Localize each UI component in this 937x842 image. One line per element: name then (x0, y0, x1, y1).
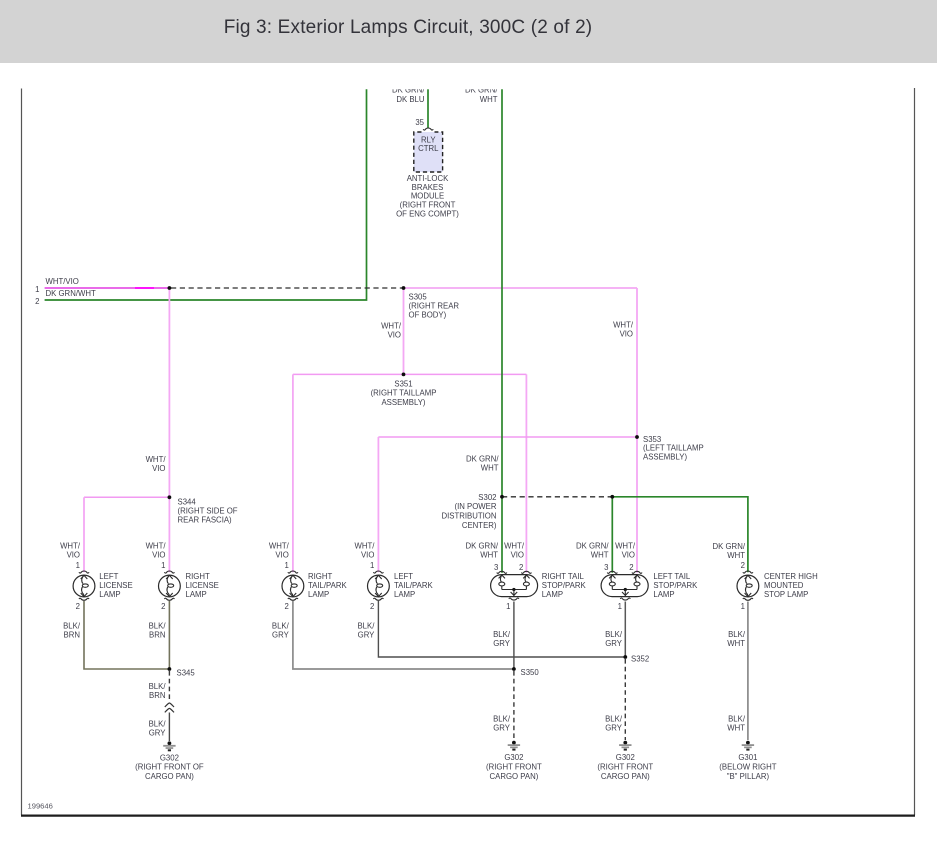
svg-text:WHT/: WHT/ (269, 542, 290, 551)
svg-text:(LEFT TAILLAMP: (LEFT TAILLAMP (643, 444, 704, 453)
svg-text:(RIGHT SIDE OF: (RIGHT SIDE OF (178, 507, 238, 516)
svg-text:3: 3 (604, 563, 608, 572)
svg-text:G302: G302 (616, 753, 635, 762)
svg-text:WHT/: WHT/ (146, 542, 167, 551)
wire DK GRN/WHT from top down to S302 (501, 89, 503, 497)
svg-text:199646: 199646 (28, 802, 53, 811)
frame left border (21, 89, 23, 816)
svg-text:ASSEMBLY): ASSEMBLY) (643, 452, 687, 461)
wire WHT/VIO S351 to right tail/park lamp pin 1 (292, 374, 294, 572)
svg-text:1: 1 (370, 561, 374, 570)
svg-text:1: 1 (76, 561, 80, 570)
wire dashed BLK/BRN S345 down (168, 671, 170, 702)
svg-text:BLK/: BLK/ (493, 714, 511, 723)
wire WHT/VIO junction down to S344 (168, 288, 170, 497)
node junction DK GRN/WHT (610, 495, 614, 499)
svg-text:GRY: GRY (272, 631, 290, 640)
ground G302 right front of cargo pan (163, 741, 175, 751)
svg-text:G302: G302 (504, 753, 523, 762)
svg-text:WHT/VIO: WHT/VIO (46, 277, 79, 286)
wire WHT/VIO S344 to left license lamp pin 1 (83, 497, 85, 572)
ground G302 below S352 (619, 741, 631, 751)
svg-text:BRN: BRN (149, 691, 165, 700)
svg-text:REAR FASCIA): REAR FASCIA) (178, 516, 233, 525)
svg-text:LAMP: LAMP (394, 590, 415, 599)
title bar (0, 17, 816, 39)
svg-text:TAIL/PARK: TAIL/PARK (394, 581, 434, 590)
svg-text:CTRL: CTRL (418, 144, 439, 153)
svg-text:GRY: GRY (605, 639, 623, 648)
wire dashed DK GRN/WHT from S302 (502, 496, 612, 498)
wire DK GRN/WHT junction to left tail stop/park lamp pin 3 (611, 497, 613, 573)
svg-text:BRAKES: BRAKES (412, 183, 444, 192)
svg-text:LEFT TAIL: LEFT TAIL (653, 572, 690, 581)
wire DK GRN/DK BLU from top to ABS module pin 35 (427, 89, 429, 128)
svg-text:VIO: VIO (388, 331, 401, 340)
svg-text:WHT/: WHT/ (504, 542, 525, 551)
svg-text:GRY: GRY (149, 728, 167, 737)
svg-text:GRY: GRY (493, 723, 511, 732)
pin 35 connector arc (423, 128, 433, 130)
svg-text:RIGHT: RIGHT (186, 572, 210, 581)
svg-text:VIO: VIO (275, 550, 288, 559)
svg-text:WHT: WHT (727, 723, 745, 732)
svg-text:BLK/: BLK/ (605, 714, 623, 723)
wire BLK/WHT center high mounted stop lamp pin 1 to ground G301 (747, 602, 749, 741)
svg-text:DK GRN/: DK GRN/ (466, 454, 499, 463)
svg-text:WHT: WHT (591, 550, 609, 559)
svg-text:BLK/: BLK/ (728, 630, 746, 639)
svg-text:(RIGHT FRONT OF: (RIGHT FRONT OF (135, 763, 204, 772)
svg-text:MOUNTED: MOUNTED (764, 581, 804, 590)
svg-text:WHT: WHT (727, 639, 745, 648)
svg-text:DK GRN/WHT: DK GRN/WHT (46, 289, 96, 298)
svg-text:(RIGHT FRONT: (RIGHT FRONT (486, 762, 542, 771)
svg-text:TAIL/PARK: TAIL/PARK (308, 581, 348, 590)
svg-text:DK BLU: DK BLU (396, 95, 425, 104)
node S305 (402, 286, 406, 290)
svg-text:MODULE: MODULE (411, 192, 444, 201)
wire DK GRN/WHT S302 to right tail stop/park lamp pin 3 (501, 497, 503, 573)
svg-text:OF ENG COMPT): OF ENG COMPT) (396, 209, 459, 218)
wire WHT/VIO down to S353 (636, 288, 638, 437)
wire WHT/VIO S344 branch bar (84, 496, 169, 498)
wire WHT/VIO S353 to left tail/park lamp pin 1 (377, 437, 379, 572)
panel top mask (23, 76, 913, 89)
wire BLK/GRY to ground G302 (168, 713, 170, 742)
svg-text:BLK/: BLK/ (63, 622, 81, 631)
svg-text:3: 3 (494, 563, 498, 572)
svg-text:S353: S353 (643, 435, 661, 444)
svg-text:ASSEMBLY): ASSEMBLY) (381, 398, 425, 407)
svg-text:S350: S350 (521, 668, 540, 677)
svg-text:S351: S351 (394, 379, 412, 388)
svg-text:WHT/: WHT/ (146, 455, 167, 464)
svg-text:WHT/: WHT/ (615, 542, 636, 551)
svg-text:G302: G302 (160, 753, 179, 762)
svg-text:VIO: VIO (620, 330, 633, 339)
svg-text:WHT: WHT (480, 550, 498, 559)
svg-text:"B" PILLAR): "B" PILLAR) (727, 772, 770, 781)
svg-text:LAMP: LAMP (653, 590, 674, 599)
svg-text:BLK/: BLK/ (728, 714, 746, 723)
svg-text:BRN: BRN (64, 631, 80, 640)
svg-text:2: 2 (284, 602, 288, 611)
svg-text:STOP/PARK: STOP/PARK (542, 581, 587, 590)
svg-text:BLK/: BLK/ (149, 719, 167, 728)
svg-text:S305: S305 (409, 292, 428, 301)
node S344 (168, 495, 172, 499)
wire DK GRN/WHT junction to center high mounted stop lamp pin 2 (612, 497, 748, 572)
svg-text:LICENSE: LICENSE (186, 581, 219, 590)
svg-text:DISTRIBUTION: DISTRIBUTION (441, 512, 496, 521)
svg-text:WHT: WHT (481, 464, 499, 473)
lamp LEFT LICENSE LAMP (73, 575, 95, 597)
wire BLK/GRY right tail stop/park lamp pin 1 to S350 (513, 602, 515, 670)
svg-text:(RIGHT TAILLAMP: (RIGHT TAILLAMP (371, 389, 437, 398)
wire BLK/GRY right tail/park lamp pin 2 to S350 (293, 601, 514, 669)
ground G301 below right B pillar (742, 741, 754, 751)
svg-text:1: 1 (506, 602, 510, 611)
svg-text:BLK/: BLK/ (149, 682, 167, 691)
node S351 (402, 373, 406, 377)
svg-text:CARGO PAN): CARGO PAN) (489, 772, 538, 781)
svg-text:LEFT: LEFT (394, 572, 413, 581)
svg-text:S352: S352 (631, 654, 649, 663)
svg-text:(RIGHT FRONT: (RIGHT FRONT (400, 201, 456, 210)
svg-text:BRN: BRN (149, 631, 165, 640)
wire WHT/VIO S351 branch bar (293, 373, 527, 375)
svg-text:WHT/: WHT/ (60, 542, 81, 551)
svg-text:VIO: VIO (511, 550, 524, 559)
svg-text:LAMP: LAMP (99, 590, 120, 599)
wire dashed WHT/VIO to S305 (171, 287, 404, 289)
lamp RIGHT TAIL/PARK LAMP (282, 575, 304, 597)
svg-text:WHT/: WHT/ (354, 542, 375, 551)
svg-text:LAMP: LAMP (186, 590, 207, 599)
wire WHT/VIO S351 to right tail stop/park lamp pin 2 (525, 374, 527, 572)
svg-text:G301: G301 (738, 753, 757, 762)
svg-text:GRY: GRY (358, 631, 376, 640)
svg-text:OF BODY): OF BODY) (409, 311, 447, 320)
svg-text:CENTER HIGH: CENTER HIGH (764, 572, 818, 581)
wire BLK/GRY left tail/park lamp pin 2 to S352 (378, 601, 625, 657)
svg-text:BLK/: BLK/ (149, 622, 167, 631)
svg-text:VIO: VIO (152, 550, 165, 559)
svg-text:DK GRN/: DK GRN/ (576, 542, 609, 551)
svg-text:2: 2 (741, 561, 745, 570)
svg-text:S345: S345 (177, 668, 196, 677)
lamp LEFT TAIL/PARK LAMP (368, 575, 390, 597)
svg-text:1: 1 (741, 602, 745, 611)
wire WHT/VIO bright segment (135, 287, 154, 289)
svg-text:2: 2 (76, 602, 80, 611)
node S353 (635, 435, 639, 439)
svg-text:LEFT: LEFT (99, 572, 118, 581)
lamp LEFT TAIL STOP/PARK LAMP (601, 575, 648, 597)
svg-text:(RIGHT FRONT: (RIGHT FRONT (597, 762, 653, 771)
svg-text:VIO: VIO (67, 550, 80, 559)
node S302 (500, 495, 504, 499)
svg-text:RIGHT: RIGHT (308, 572, 332, 581)
wire BLK/BRN right license lamp pin 2 to S345 (168, 601, 170, 669)
svg-text:2: 2 (161, 602, 165, 611)
svg-text:S344: S344 (178, 497, 197, 506)
svg-text:WHT/: WHT/ (381, 321, 402, 330)
svg-text:2: 2 (519, 563, 523, 572)
node S352 (623, 655, 627, 659)
svg-text:BLK/: BLK/ (605, 630, 623, 639)
node S345 (168, 667, 172, 671)
wire DK GRN/WHT from connector pin 2 to top of page (45, 89, 367, 300)
wire dashed BLK/GRY S352 to ground (624, 659, 626, 740)
wire dashed BLK/GRY S350 to ground (513, 671, 515, 740)
lamp CENTER HIGH MOUNTED STOP LAMP (737, 575, 759, 597)
svg-text:RIGHT TAIL: RIGHT TAIL (542, 572, 585, 581)
svg-text:BLK/: BLK/ (357, 622, 375, 631)
svg-text:1: 1 (618, 602, 622, 611)
svg-text:(RIGHT REAR: (RIGHT REAR (409, 302, 460, 311)
svg-text:WHT: WHT (727, 551, 745, 560)
svg-text:DK GRN/: DK GRN/ (713, 542, 746, 551)
svg-text:CENTER): CENTER) (462, 521, 497, 530)
node junction WHT/VIO (168, 286, 172, 290)
frame right border (914, 88, 916, 815)
ground G302 below S350 (508, 741, 520, 751)
lamp RIGHT TAIL STOP/PARK LAMP (491, 575, 538, 597)
svg-text:2: 2 (35, 297, 39, 306)
svg-text:STOP/PARK: STOP/PARK (653, 581, 698, 590)
svg-text:VIO: VIO (361, 550, 374, 559)
wire BLK/BRN left license lamp pin 2 to S345 (84, 601, 169, 669)
wire WHT/VIO S353 branch bar (378, 436, 637, 438)
svg-text:CARGO PAN): CARGO PAN) (145, 772, 194, 781)
svg-text:BLK/: BLK/ (493, 630, 511, 639)
svg-text:(IN POWER: (IN POWER (454, 502, 496, 511)
wire WHT/VIO from connector pin 1 (45, 287, 170, 289)
svg-text:DK GRN/: DK GRN/ (466, 542, 499, 551)
wire WHT/VIO S305 to S353 corner (404, 287, 638, 289)
svg-text:CARGO PAN): CARGO PAN) (601, 772, 650, 781)
frame bottom border (21, 814, 915, 816)
svg-text:BLK/: BLK/ (272, 622, 290, 631)
op-amp U1 anti-lock brakes module RLY CTRL box (414, 132, 443, 172)
wire BLK/GRY left tail stop/park lamp pin 1 to S352 (624, 602, 626, 658)
svg-text:LICENSE: LICENSE (99, 581, 132, 590)
lamp RIGHT LICENSE LAMP (159, 575, 181, 597)
wire WHT/VIO S344 to right license lamp pin 1 (168, 497, 170, 572)
svg-text:S302: S302 (478, 493, 496, 502)
svg-text:(BELOW RIGHT: (BELOW RIGHT (719, 762, 776, 771)
node S350 (512, 667, 516, 671)
svg-text:VIO: VIO (622, 550, 635, 559)
svg-text:STOP LAMP: STOP LAMP (764, 590, 808, 599)
svg-text:LAMP: LAMP (308, 590, 329, 599)
svg-text:ANTI-LOCK: ANTI-LOCK (407, 174, 449, 183)
inline connector in ground wire (165, 703, 174, 712)
svg-text:GRY: GRY (605, 723, 623, 732)
wire WHT/VIO S353 to left tail stop/park lamp pin 2 (636, 437, 638, 573)
svg-text:WHT: WHT (480, 95, 498, 104)
svg-text:1: 1 (35, 285, 39, 294)
svg-text:WHT/: WHT/ (613, 320, 634, 329)
svg-text:LAMP: LAMP (542, 590, 563, 599)
svg-text:2: 2 (629, 563, 633, 572)
svg-text:1: 1 (284, 561, 288, 570)
svg-text:35: 35 (415, 118, 424, 127)
svg-text:VIO: VIO (152, 464, 165, 473)
svg-text:1: 1 (161, 561, 165, 570)
svg-text:GRY: GRY (493, 639, 511, 648)
svg-text:2: 2 (370, 602, 374, 611)
wire WHT/VIO S305 down to S351 (403, 288, 405, 374)
